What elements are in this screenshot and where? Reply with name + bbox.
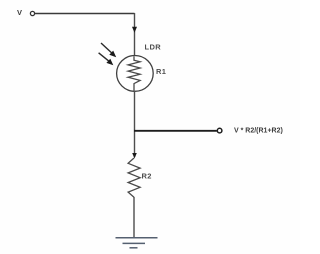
resistor R1 zigzag inside LDR (128, 56, 140, 91)
arrowhead (current direction) above R2 (132, 153, 137, 159)
svg-text:R1: R1 (156, 67, 166, 76)
resistor R2 zigzag (128, 158, 140, 197)
svg-text:LDR: LDR (145, 43, 162, 52)
wire: LDR bottom to R2 (134, 91, 136, 157)
svg-text:R2: R2 (142, 172, 152, 181)
svg-text:V: V (17, 8, 22, 17)
wire: top corner down to LDR circle (134, 13, 136, 56)
output wire (tap of divider) (134, 130, 217, 132)
LDR body circle U1 (117, 56, 154, 92)
light arrow 2 (lower) (99, 53, 114, 65)
svg-text:V * R2/(R1+R2): V * R2/(R1+R2) (234, 128, 283, 135)
wire: V terminal to top corner (35, 13, 135, 15)
terminal circle at V (30, 11, 34, 15)
wire: R2 to ground (133, 197, 135, 238)
light arrow 1 (upper) (101, 43, 116, 57)
output terminal circle (217, 128, 222, 133)
ground symbol (116, 238, 158, 248)
arrowhead (current direction) on top vertical wire (132, 27, 137, 33)
